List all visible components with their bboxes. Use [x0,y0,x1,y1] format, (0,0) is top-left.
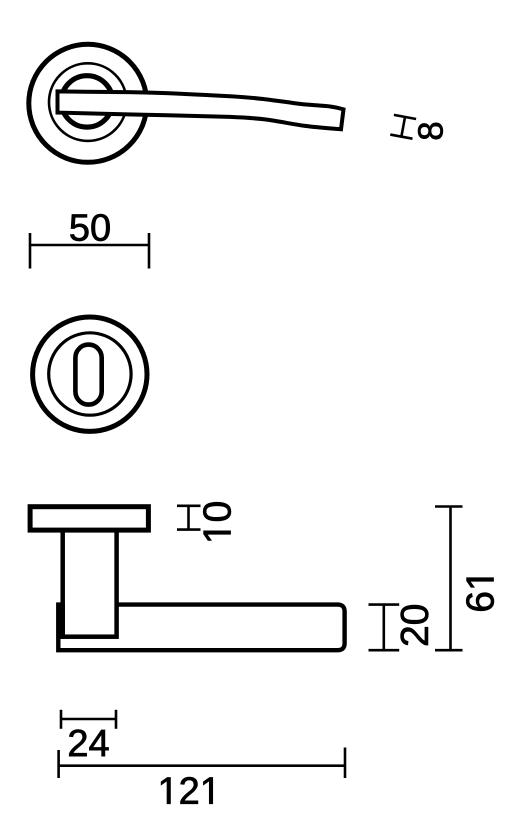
escutcheon inner circle [49,333,131,415]
top view: rose outer circle [29,44,147,162]
dim 10: I-beam [177,506,201,530]
dim 50: line [30,233,149,269]
dim 121: label glyphs [161,777,213,804]
side view: rose plate [30,507,148,530]
dim 50: label glyphs [70,214,109,241]
top view: lever handle [58,91,344,129]
escutcheon outer circle [33,317,147,431]
dim 61: line [435,507,463,651]
side view: lever bar [58,605,344,651]
keyhole [75,345,101,405]
dim 8: label glyphs [418,123,443,139]
dim 8: tilted I-beam [390,115,416,139]
dim 24: line [61,710,116,729]
side view: lever-neck joint fill [56,603,65,639]
dim 24: label glyphs [69,730,108,757]
top view: rose middle circle [49,63,127,141]
dim 20: I-beam [369,605,400,651]
dim 20: label glyphs [401,605,429,645]
dim 10: label glyphs [203,502,231,540]
top view: rose inner circle [61,76,112,127]
side view: neck [63,530,117,637]
dim 61: label glyphs [466,578,494,611]
dim 121: line [59,748,345,779]
